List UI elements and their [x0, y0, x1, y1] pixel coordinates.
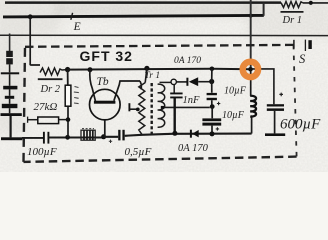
label E tick [71, 13, 73, 20]
tap end mark [161, 106, 164, 109]
wire long vertical x251 from top edge to junction [250, 0, 252, 69]
wire from plate to winding [130, 108, 138, 110]
wire rail A after choke with blob [303, 2, 328, 4]
output coil bumps [250, 96, 256, 117]
resistor 27k left pin tick [27, 117, 29, 123]
node open circle [171, 79, 176, 84]
svg-text:Tb: Tb [97, 76, 109, 88]
corner tick at box top right [293, 40, 295, 49]
wire rail C [0, 34, 328, 36]
wire main horizontal rail y69 [68, 68, 251, 71]
node 1nF bottom [172, 131, 177, 136]
capacitor plate mark right of transistor [128, 103, 130, 111]
svg-text:10µF: 10µF [222, 110, 245, 121]
battery cell dark element upper [6, 51, 13, 57]
node mid caps [210, 104, 215, 109]
wire top rail A [5, 1, 281, 4]
battery lead [9, 64, 11, 72]
resistor 27k wire right [59, 119, 68, 121]
capacitor 10uF no2 plates [202, 118, 221, 121]
svg-text:0A 170: 0A 170 [174, 56, 201, 66]
node rail y69 x212 [210, 67, 215, 72]
plus mark cap1 [217, 102, 220, 105]
gray smudge left column [0, 34, 26, 134]
gray smudge top left [0, 0, 60, 34]
plus mark near 100uF wire [109, 140, 112, 143]
wire junction down to coil [250, 69, 252, 96]
transformer secondary bump winding [158, 84, 165, 127]
diode D2 triangle [192, 130, 199, 138]
wire divider vertical lower [67, 106, 69, 137]
resistor hatched box on bottom wire [81, 129, 95, 141]
node base feed [88, 67, 93, 72]
svg-text:27kΩ: 27kΩ [34, 101, 58, 113]
transistor right lead inside [114, 81, 140, 101]
wire cap1 to node [211, 100, 213, 105]
terminal foot 600uF [265, 133, 285, 136]
dashed box bottom edge [24, 157, 297, 162]
diode D1 cathode bar [186, 78, 188, 86]
node blob on rail A right [309, 1, 313, 5]
battery stem 1 [9, 74, 11, 86]
svg-text:Tr 1: Tr 1 [145, 71, 161, 81]
wire x212 rail to diode [211, 69, 213, 82]
wire 600uF down [274, 111, 276, 133]
choke Dr2 zigzag [40, 68, 65, 75]
svg-text:1nF: 1nF [183, 95, 201, 106]
battery column vertical lead from rail C [9, 34, 11, 52]
gray smudge between top rails [55, 1, 260, 17]
wire winding bottom corner up [251, 115, 253, 133]
node cap2 bottom [210, 131, 215, 136]
battery plate thick 2 [2, 104, 18, 108]
wire bottom rail left [22, 137, 43, 139]
wire secondary tap to node x212 [162, 106, 210, 108]
switch S thin contact [304, 40, 306, 51]
dashed box GFT32 top edge [25, 45, 294, 47]
resistor divider body vertical [65, 85, 71, 106]
wire bottom rail right [172, 133, 252, 135]
svg-text:Dr 1: Dr 1 [282, 15, 303, 26]
choke Dr1 zigzag [281, 2, 303, 8]
node diode junction [209, 79, 214, 84]
terminal bottom bar [1, 137, 22, 140]
paper noise [0, 0, 328, 172]
diode D1 wire right [198, 81, 210, 83]
transformer core dashed [150, 83, 152, 135]
dashed box left edge [24, 47, 26, 162]
gray smudge right top [246, 0, 328, 38]
node on rail B feeding Dr2 [28, 14, 33, 19]
svg-text:10µF: 10µF [224, 86, 247, 97]
svg-text:600µF: 600µF [280, 117, 321, 133]
node divider mid [66, 117, 71, 122]
terminal stem [10, 116, 12, 137]
svg-text:E: E [73, 21, 81, 33]
wire secondary top to node circle [160, 81, 172, 83]
capacitor 100uF right plate [47, 132, 49, 144]
transistor emitter lead [104, 120, 106, 137]
svg-text:0A 170: 0A 170 [178, 143, 209, 154]
node Tr1 top blob [144, 66, 149, 71]
battery plate short thick 1 [3, 86, 17, 90]
node Dr2 right junction [65, 67, 70, 72]
wire vertical from rail B to Dr2 [30, 17, 40, 65]
battery stem 3 [9, 99, 11, 104]
diode D2 cathode bar [190, 130, 192, 138]
plus mark 600uF [279, 93, 283, 97]
dashed box right edge [294, 45, 297, 157]
svg-text:0,5µF: 0,5µF [125, 146, 152, 158]
battery plate long 1 [1, 72, 19, 74]
choke Dr1 core line [281, 11, 304, 13]
battery cell dark element lower [6, 58, 13, 64]
node center of ring [248, 67, 253, 72]
svg-text:Dr 2: Dr 2 [40, 84, 61, 95]
capacitor 1nF top lead [173, 84, 175, 92]
node rail B x251 [249, 14, 253, 18]
svg-text:100µF: 100µF [27, 146, 57, 158]
terminal top bar [1, 113, 22, 116]
svg-text:S: S [299, 52, 306, 66]
wire diode node down to cap [211, 82, 213, 93]
wire node to cap2 [211, 107, 213, 119]
resistor 27k wire left [28, 119, 38, 121]
capacitor 1nF bottom lead thick [173, 98, 175, 132]
wire top rail B [3, 15, 264, 17]
capacitor 600uF plates [267, 104, 284, 106]
transistor Tb circle [90, 89, 121, 120]
battery stem 2 [9, 89, 11, 95]
choke Dr2 core line [38, 78, 63, 80]
wire cap2 down [211, 126, 213, 134]
wire divider vertical upper [67, 70, 69, 86]
annotation orange ring [243, 62, 258, 77]
battery plate short 2 [5, 96, 14, 99]
plus mark cap2 [216, 127, 219, 130]
resistor small side marks [74, 87, 79, 104]
resistor 27k body [38, 117, 59, 124]
wire collector hook down to winding [140, 81, 141, 90]
svg-text:GFT 32: GFT 32 [80, 48, 133, 64]
node on winding [136, 108, 140, 112]
node divider bottom [65, 135, 70, 140]
transformer Tr1 primary zigzag winding [139, 83, 145, 135]
capacitor 1nF plates [170, 93, 182, 97]
capacitor 100uF left plate [43, 132, 45, 144]
battery stem 4 [9, 108, 11, 113]
diode D1 triangle [189, 77, 198, 86]
wire base lead down to transistor [90, 70, 96, 101]
diode D1 wire left [176, 81, 187, 83]
node emitter bottom [101, 134, 106, 139]
wire Tr1 top lead [145, 68, 147, 82]
capacitor 0.5uF series plate 1 [118, 130, 120, 141]
transistor base bar [94, 101, 116, 104]
wire bottom rail middle [104, 134, 172, 137]
switch S thick contact [308, 40, 311, 49]
wire step joining rail A to rail B [263, 3, 265, 16]
capacitor 10uF no1 plates [207, 93, 217, 95]
wire bottom rail to emitter node [48, 136, 103, 138]
capacitor 0.5uF series plate 2 [122, 130, 124, 141]
wire junction right to 600uF [251, 69, 274, 104]
